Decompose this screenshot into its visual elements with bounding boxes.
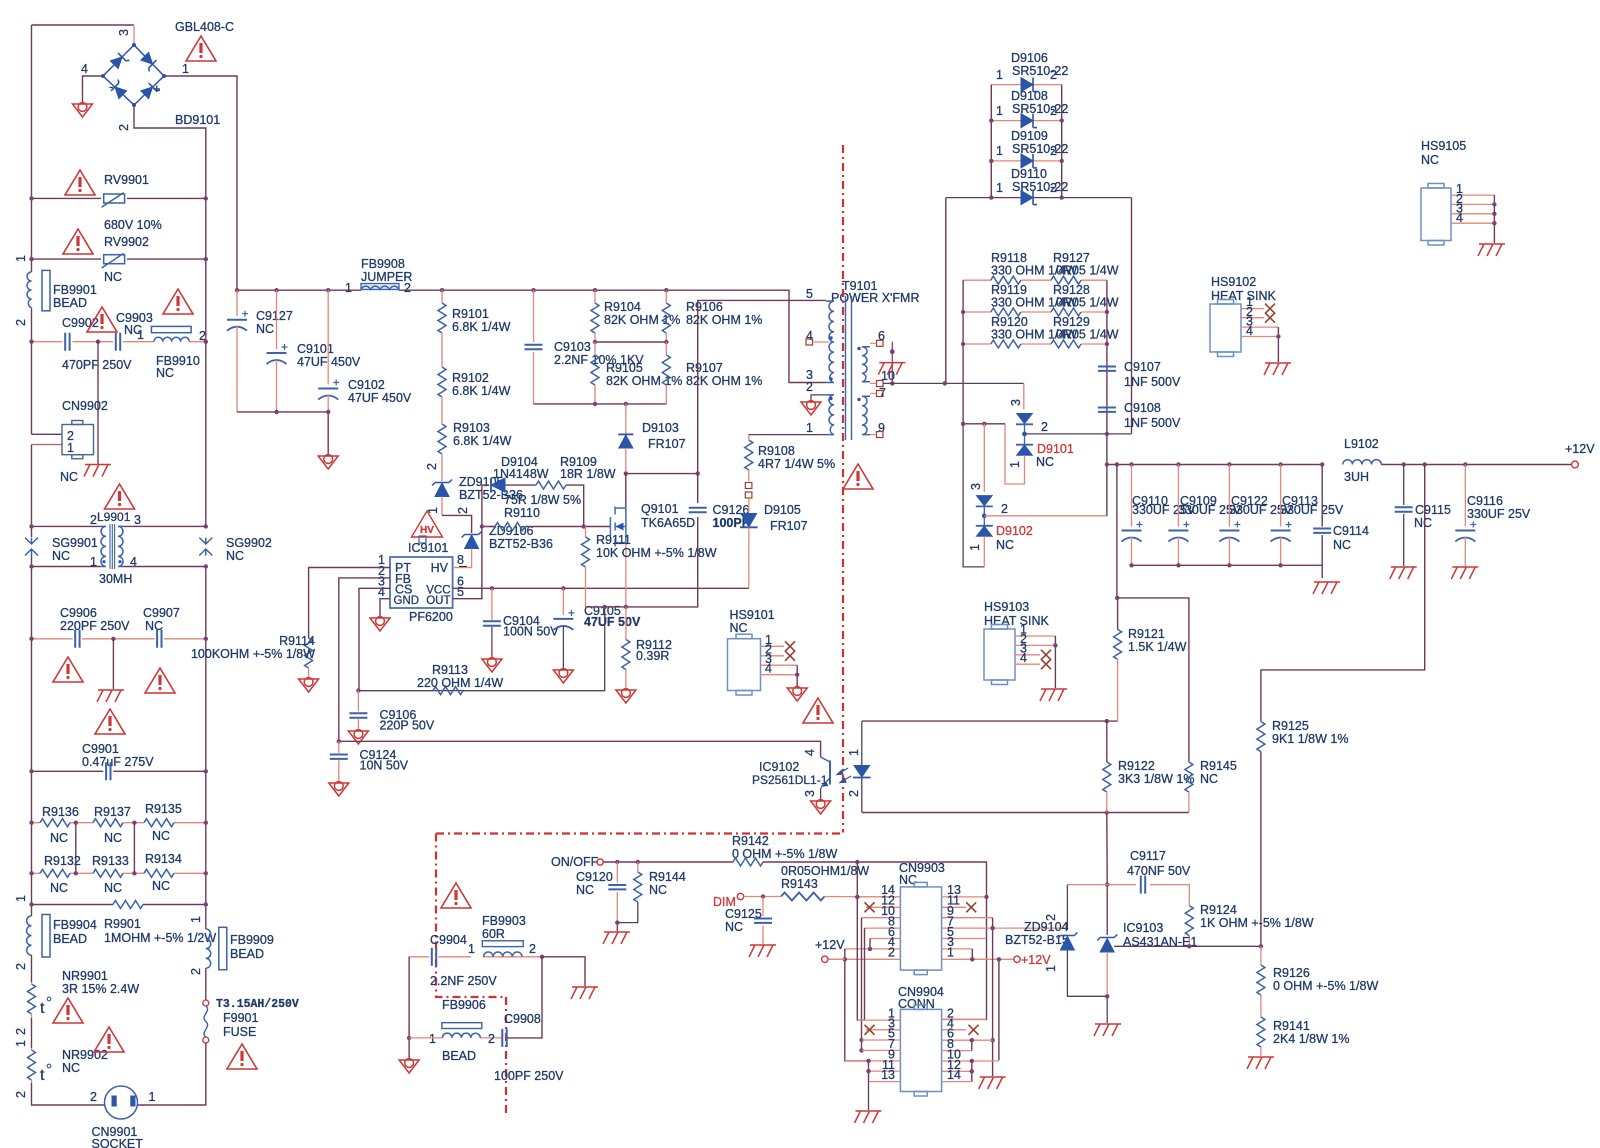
svg-text:R9124: R9124 [1200,903,1237,917]
svg-text:C9102: C9102 [348,378,385,392]
junction dots R9132 row [29,871,33,875]
wire mid row R9104/R9106 [595,341,666,343]
capacitor C9124 [338,741,340,753]
wire FB9906 row [409,1037,502,1039]
ground xfmr pin2 [801,401,821,415]
ON/OFF terminal [597,859,603,865]
svg-text:NC: NC [104,831,122,845]
inductor L9901 right winding [118,526,124,566]
resistor R9143 [781,893,825,901]
svg-text:C9125: C9125 [725,907,762,921]
diode D9110 row [946,197,1132,199]
capacitor C9907 [157,630,161,648]
svg-text:C9103: C9103 [554,340,591,354]
wire V1 +12V left vertical [845,949,869,1061]
ground C9116 [1451,567,1478,579]
CN9904 right pin wires [942,1019,999,1081]
capacitor C9104 [491,588,493,620]
wire RV9902 row [32,258,206,260]
svg-text:1: 1 [1008,461,1022,468]
svg-text:1: 1 [90,555,97,569]
ground HS9102 [1264,363,1291,375]
stack junction dots [989,118,993,122]
socket CN9901 [105,1086,138,1119]
warning triangle below xfmr [843,464,873,489]
connector CN9903 [900,882,941,974]
svg-text:D9110: D9110 [1011,167,1047,181]
svg-text:6.8K 1/4W: 6.8K 1/4W [453,434,512,448]
capacitor C9902 [65,333,69,351]
svg-text:1: 1 [847,749,861,756]
wire DIM row / R9143 [744,896,901,898]
svg-text:60R: 60R [482,927,505,941]
resistor R9141 [1257,1017,1265,1047]
svg-text:2K4 1/8W 1%: 2K4 1/8W 1% [1273,1032,1349,1046]
resistor R9125 [1257,722,1265,752]
svg-text:FR107: FR107 [770,519,808,533]
svg-text:18R 1/8W: 18R 1/8W [560,467,616,481]
bridge diode BR [141,81,160,100]
inductor L9901 left winding [100,526,106,566]
junction dots RV9902 [29,257,33,261]
wire +12V rail [1106,434,1108,516]
svg-text:C9108: C9108 [1124,401,1161,415]
resistor R9124 [1185,906,1193,936]
svg-text:NC: NC [104,881,122,895]
phase dots L9901 [102,560,105,563]
svg-text:3: 3 [1009,399,1023,406]
warning triangle NR9902 [94,1027,124,1052]
svg-text:C9904: C9904 [430,933,467,947]
svg-text:L9901: L9901 [97,510,131,524]
wire bridge pin2 [134,105,206,198]
resistor chain R9101 [441,290,443,303]
svg-text:2: 2 [90,513,97,527]
warning triangle RV9902 [63,229,93,254]
isolation barrier left vertical [436,834,506,1114]
svg-text:1: 1 [996,144,1003,158]
svg-text:0 OHM +-5% 1/8W: 0 OHM +-5% 1/8W [1273,979,1378,993]
svg-text:NR9902: NR9902 [62,1048,108,1062]
svg-text:1: 1 [137,328,144,342]
svg-text:SR510-22: SR510-22 [1012,64,1068,78]
svg-text:1: 1 [14,895,28,902]
warning triangle under C9906 [53,657,83,682]
svg-text:FB9903: FB9903 [482,914,526,928]
HS9103 pin wires [1015,636,1055,664]
wire gate row [482,526,611,528]
warning triangle NR9901 [53,998,83,1023]
wire OUT pin5 [453,527,482,599]
svg-text:10K OHM +-5% 1/8W: 10K OHM +-5% 1/8W [596,546,717,560]
X marks CN9904 row5/6 [865,1025,875,1035]
svg-text:470PF 250V: 470PF 250V [62,358,132,372]
svg-text:R9141: R9141 [1273,1019,1310,1033]
ground IC9103 [1094,1024,1121,1036]
warning triangle FB9910 area [163,289,193,314]
svg-text:FR107: FR107 [648,437,686,451]
wire xfmr pin1 to R9108 [749,434,826,436]
svg-text:2.2NF 250V: 2.2NF 250V [430,974,497,988]
svg-text:NC: NC [649,883,667,897]
svg-text:9K1 1/8W 1%: 9K1 1/8W 1% [1272,732,1348,746]
wire row 423.8 [963,423,1005,425]
svg-text:R9121: R9121 [1128,627,1165,641]
svg-text:NC: NC [156,366,174,380]
X marks HS9103 [1041,650,1051,660]
svg-text:82K OHM 1%: 82K OHM 1% [606,374,682,388]
svg-text:t: t [40,1000,45,1017]
capacitor C9116 [1464,465,1466,527]
ground under C9102 [318,455,338,469]
svg-text:3K3 1/8W 1%: 3K3 1/8W 1% [1118,772,1194,786]
wire IC pin1 PT to R9114 [309,568,390,639]
svg-text:RV9901: RV9901 [104,173,149,187]
wire bridge pin1 to right [164,76,237,290]
svg-text:R9144: R9144 [649,870,686,884]
svg-text:C9116: C9116 [1467,494,1503,508]
svg-text:R9137: R9137 [94,805,131,819]
svg-text:NC: NC [60,470,78,484]
svg-text:GND: GND [394,595,420,607]
warning triangle fuse [227,1044,257,1069]
svg-text:1MOHM +-5% 1/2W: 1MOHM +-5% 1/2W [104,931,216,945]
svg-text:1: 1 [996,104,1003,118]
svg-text:R9103: R9103 [453,421,490,435]
xfmr pin9 square [877,432,884,438]
wire R9102-R9103 [441,397,443,424]
svg-text:3: 3 [117,29,131,36]
resistor R9106 [665,290,667,303]
svg-text:NC: NC [62,1061,80,1075]
svg-text:IC9102: IC9102 [759,760,799,774]
capacitor C9108 [1098,408,1116,412]
svg-text:47UF 450V: 47UF 450V [348,391,412,405]
svg-text:30MH: 30MH [99,572,132,586]
wire A vertical (ON/OFF net down) [857,862,864,1020]
svg-text:NC: NC [576,883,594,897]
wire pin10 to D9101 [1023,383,1025,409]
wire L9901 top row [32,525,101,527]
capacitor C9107 [1098,367,1116,371]
wire IC9103 node row [1114,945,1261,947]
svg-text:BEAD: BEAD [53,932,87,946]
wire R9113 link down [358,607,604,691]
IC9101 box [390,557,453,608]
svg-text:Q9101: Q9101 [641,502,679,516]
svg-text:2: 2 [488,1032,495,1046]
resistor R9135 [144,819,174,827]
svg-text:HEAT SINK: HEAT SINK [984,614,1049,628]
svg-text:C9115: C9115 [1415,503,1451,517]
svg-text:2: 2 [1050,144,1057,158]
wire pin10 output [883,382,1024,384]
MOSFET Q9101 [610,507,626,547]
svg-text:BD9101: BD9101 [175,113,220,127]
svg-text:D9101: D9101 [1037,442,1074,456]
svg-text:RV9902: RV9902 [104,235,149,249]
svg-text:NC: NC [1414,516,1432,530]
capacitor C9125 [762,897,764,917]
HS9105 pin wires [1451,195,1494,223]
wire ZD9105 to ZD9106 [442,515,472,533]
network side verticals [963,280,1107,433]
wire drain node row [626,474,698,503]
resistor R9144 [637,862,639,872]
wire CN9904 left strap 9-11-13 [868,1061,870,1082]
phase dot secondary upper [857,347,860,350]
wire D9102 top lead [983,424,985,492]
resistor R9134 [144,869,174,877]
inductor FB9909 [206,929,211,968]
svg-text:C9906: C9906 [60,606,97,620]
svg-text:NC: NC [730,621,748,635]
ground HS9101 [787,687,807,701]
inductor FB9903 [484,952,523,957]
warning triangle GBL408-C [186,36,216,61]
svg-text:PS2561DL1-1: PS2561DL1-1 [752,773,828,787]
capacitor C9903 [116,333,120,351]
HS9101 pin wires [761,646,798,674]
wire R9113 row [358,690,604,692]
svg-text:NC: NC [1036,455,1054,469]
svg-text:R9901: R9901 [104,917,141,931]
svg-text:1: 1 [1044,965,1058,972]
resistor row R9118 R9127 [963,279,1107,281]
svg-text:IC9101: IC9101 [408,541,448,555]
diode D9101 lower [1016,444,1033,446]
svg-text:NC: NC [152,879,170,893]
svg-text:4: 4 [1246,324,1253,338]
svg-text:4: 4 [130,555,137,569]
svg-text:1: 1 [149,1090,156,1104]
svg-text:SR510-22: SR510-22 [1012,142,1068,156]
svg-text:0 OHM +-5% 1/8W: 0 OHM +-5% 1/8W [732,847,837,861]
wire right rail lower [138,567,206,1106]
svg-text:2: 2 [1050,104,1057,118]
svg-text:ON/OFF: ON/OFF [551,855,599,869]
svg-text:4R7 1/4W 5%: 4R7 1/4W 5% [758,457,835,471]
wire D9102 node2 row [984,434,1107,516]
svg-text:R9114: R9114 [279,634,315,648]
optocoupler IC9102 transistor [829,761,831,785]
bead FB9906 [442,1023,482,1029]
resistor R9132 [40,869,70,877]
svg-text:5: 5 [806,287,813,301]
wire CN9903 pin6-4 U [869,939,871,949]
wire R9125 branch [1261,465,1425,722]
ground HS9103 [1040,689,1067,701]
svg-text:R9122: R9122 [1118,759,1155,773]
wire L9901 top row right [124,525,206,527]
svg-text:10N 50V: 10N 50V [360,759,409,773]
resistor R9104 [594,290,596,303]
wire IC pin8 HV [453,567,472,569]
inductor L9102 [1343,460,1381,465]
network junction dots [961,310,965,314]
capacitor C9908 [502,1029,506,1047]
svg-text:R9143: R9143 [781,877,818,891]
ground C9125 [749,945,776,957]
wire L9901 bottom row [32,566,206,568]
wire R9132 row [32,872,206,874]
capacitor C9113 [1280,465,1282,527]
svg-text:R9107: R9107 [686,361,723,375]
svg-text:NC: NC [50,881,68,895]
svg-text:2: 2 [1044,914,1058,921]
bead FB9910 [151,326,191,332]
svg-text:2: 2 [14,1091,28,1098]
diode D9102 lower [976,525,993,527]
capacitor C9101 [276,290,278,349]
wire caps bottom row [1132,565,1323,578]
wire top bus right [399,290,826,382]
svg-text:R9113: R9113 [432,663,468,677]
svg-text:R9125: R9125 [1272,719,1309,733]
heatsink HS9105 [1421,184,1451,246]
heatsink HS9103 [984,625,1015,685]
capacitor C9126 [689,508,707,512]
svg-text:0R05 1/4W: 0R05 1/4W [1056,264,1119,278]
svg-text:2: 2 [1050,181,1057,195]
svg-text:C9908: C9908 [504,1012,541,1026]
core L9901 [110,524,115,569]
svg-text:R9106: R9106 [686,300,723,314]
phase dot lower primary [829,397,832,400]
resistor R9136 [40,819,70,827]
svg-text:C9901: C9901 [82,742,119,756]
svg-text:47UF 450V: 47UF 450V [297,355,361,369]
junction dots R9901 row [29,902,33,906]
svg-text:2: 2 [529,942,536,956]
diode D9105 [748,498,750,513]
phase dots primary [829,336,832,339]
svg-text:D9102: D9102 [996,524,1033,538]
svg-text:IC9103: IC9103 [1123,921,1163,935]
svg-text:2: 2 [456,507,470,514]
svg-text:L9102: L9102 [1344,437,1379,451]
resistor R9114 [305,638,313,668]
resistor R9145 [1185,762,1193,792]
heatsink HS9102 [1210,300,1241,357]
svg-text:BZT52-B36: BZT52-B36 [489,537,553,551]
svg-text:1.5K 1/4W: 1.5K 1/4W [1128,640,1187,654]
wire bottom row R9105/R9107 [534,403,667,405]
svg-text:R9132: R9132 [44,854,81,868]
svg-text:SG9902: SG9902 [226,536,272,550]
svg-text:FB9901: FB9901 [53,283,97,297]
svg-text:2: 2 [806,380,813,394]
svg-text:C9120: C9120 [576,870,613,884]
resistor R9109 [536,481,566,489]
svg-text:HEAT SINK: HEAT SINK [1211,289,1276,303]
varistor RV9902 [102,253,125,268]
junction dots VCC bus [490,586,494,590]
xfmr secondary winding lower [862,396,870,434]
wire C9117 row [1067,885,1189,906]
ground bridge pin4 [73,103,93,117]
resistor R9105 [594,342,596,355]
svg-text:D9106: D9106 [1011,51,1048,65]
wire CN9904 right U pin6-8 [971,1040,973,1050]
X marks HS9101 [785,641,795,651]
spark gap SG9902 [199,538,212,556]
svg-text:+12V: +12V [815,938,845,952]
warning triangle C9902 area [87,307,117,332]
svg-text:GBL408-C: GBL408-C [175,20,234,34]
svg-text:13: 13 [881,1068,895,1082]
X marks HS9102 [1265,304,1275,314]
capacitor C9102 [327,290,329,384]
svg-text:F9901: F9901 [223,1011,258,1025]
junction dots C9901 row [29,769,33,773]
svg-text:+12V: +12V [1565,442,1595,456]
wire C vertical (pin8 net down) [864,928,866,1020]
wire D9101 node2 row [1025,433,1132,435]
svg-text:2: 2 [847,790,861,797]
svg-text:HS9101: HS9101 [730,608,775,622]
svg-text:2: 2 [404,281,411,295]
zener IC9103 [1100,939,1114,953]
ground CN9902 [84,465,111,477]
svg-text:2: 2 [189,968,203,975]
svg-text:1: 1 [996,68,1003,82]
svg-text:6: 6 [878,329,885,343]
svg-text:9: 9 [878,421,885,435]
svg-text:0R05 1/4W: 0R05 1/4W [1056,328,1119,342]
wire B vertical (pin10 net down) [861,918,863,1051]
svg-text:6.8K 1/4W: 6.8K 1/4W [452,384,511,398]
svg-text:NC: NC [996,538,1014,552]
svg-text:+: + [153,81,161,96]
svg-text:FB9908: FB9908 [361,257,405,271]
svg-text:1: 1 [189,916,203,923]
svg-text:C9114: C9114 [1333,524,1369,538]
svg-text:R9142: R9142 [732,834,769,848]
ground C9120 [603,932,630,944]
capacitor C9904 [432,948,436,966]
xfmr pin10 square [877,381,884,387]
resistor R9122 [1106,721,1108,762]
svg-text:4: 4 [765,662,772,676]
svg-text:100PF 250V: 100PF 250V [494,1069,564,1083]
svg-text:1NF 500V: 1NF 500V [1124,416,1181,430]
wire bridge pin4 to ground [83,76,104,104]
svg-text:NC: NC [226,549,244,563]
svg-text:NC: NC [152,829,170,843]
X marks CN9903 row12/11 [865,902,875,912]
svg-text:POWER X'FMR: POWER X'FMR [831,291,920,305]
svg-text:2: 2 [425,463,439,470]
svg-text:1: 1 [806,421,813,435]
wire C9906 C9907 row [32,638,206,640]
capacitor C9106 [357,691,359,711]
svg-text:NC: NC [1421,153,1439,167]
wire bridge pin3 [133,25,135,45]
+12V terminal [1572,461,1579,468]
svg-text:NC: NC [256,322,274,336]
svg-text:0.39R: 0.39R [636,649,669,663]
svg-text:1: 1 [14,255,28,262]
varistor RV9901 [102,193,125,208]
svg-text:2: 2 [90,1090,97,1104]
inductor FB9904 [27,916,32,955]
svg-text:0R05 1/4W: 0R05 1/4W [1056,296,1119,310]
wire CN9902 pin2 [32,433,63,435]
wire L9102 to +12V [1381,464,1571,466]
svg-text:C9907: C9907 [143,606,180,620]
ground R9112 [616,689,636,703]
